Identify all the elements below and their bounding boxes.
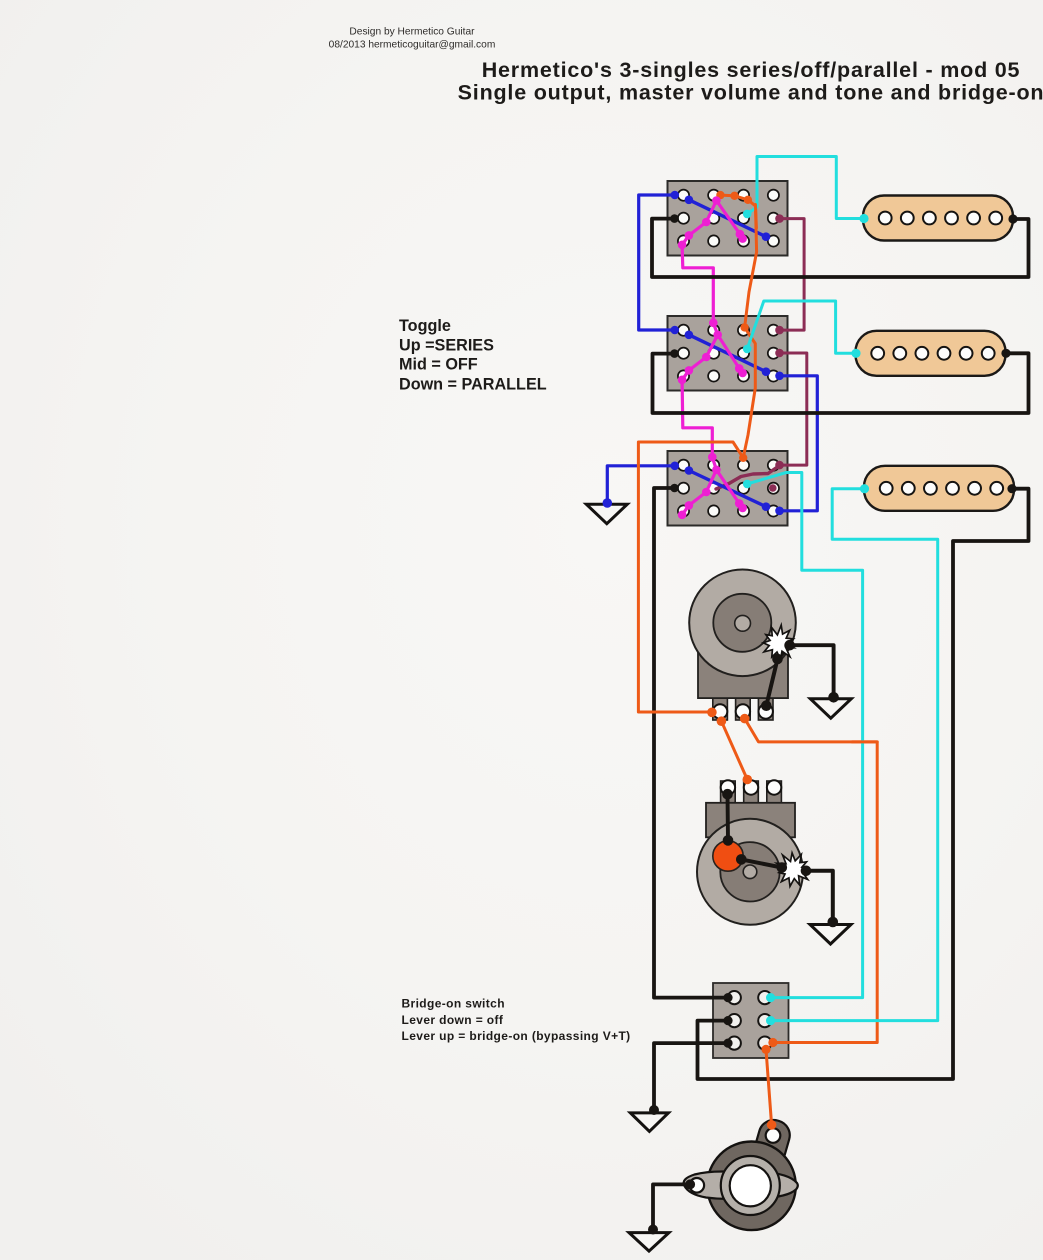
svg-text:Lever up = bridge-on (bypassin: Lever up = bridge-on (bypassing V+T) (402, 1029, 631, 1043)
svg-text:Single output, master volume a: Single output, master volume and tone an… (458, 81, 1043, 105)
svg-text:Hermetico's 3-singles series/o: Hermetico's 3-singles series/off/paralle… (482, 58, 1021, 82)
svg-text:08/2013 hermeticoguitar@gmail.: 08/2013 hermeticoguitar@gmail.com (329, 39, 496, 50)
svg-text:Mid = OFF: Mid = OFF (399, 356, 478, 374)
svg-text:Lever down = off: Lever down = off (402, 1013, 504, 1027)
svg-text:Design by Hermetico Guitar: Design by Hermetico Guitar (349, 27, 475, 38)
svg-text:Down = PARALLEL: Down = PARALLEL (399, 376, 547, 394)
svg-text:Bridge-on switch: Bridge-on switch (402, 997, 505, 1011)
svg-text:Toggle: Toggle (399, 317, 451, 335)
svg-text:Up =SERIES: Up =SERIES (399, 337, 494, 355)
